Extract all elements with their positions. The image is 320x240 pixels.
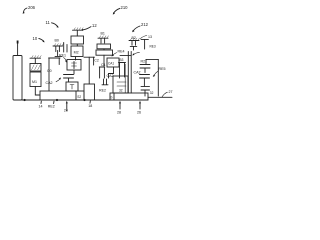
- label 14: [39, 101, 43, 108]
- svg-text:11: 11: [46, 20, 51, 25]
- motor M1: [30, 72, 41, 87]
- label RE4: [111, 50, 124, 57]
- clutch drum box: [113, 76, 128, 93]
- label 27: [162, 90, 173, 97]
- svg-text:CA2: CA2: [46, 81, 53, 85]
- label CA2: [46, 78, 62, 86]
- svg-text:RE2: RE2: [99, 89, 106, 93]
- connector: [103, 49, 105, 50]
- drum plate upper: [97, 44, 111, 49]
- stator box M2: [71, 36, 84, 44]
- wire baseline: [22, 99, 148, 101]
- svg-text:CA1: CA1: [108, 62, 114, 66]
- svg-text:CA2: CA2: [107, 74, 114, 78]
- label 11: [46, 20, 59, 28]
- svg-text:C1: C1: [101, 63, 106, 67]
- svg-text:24: 24: [64, 109, 68, 113]
- svg-text:RE3: RE3: [150, 45, 156, 49]
- ground B hatch M1 top: [30, 56, 41, 64]
- svg-text:R2: R2: [141, 60, 146, 64]
- svg-text:B1: B1: [101, 32, 105, 36]
- label 12: [81, 23, 97, 31]
- label 210: [113, 5, 128, 15]
- svg-text:18: 18: [88, 104, 92, 108]
- brake B2: [129, 36, 140, 50]
- engine block: [13, 56, 22, 101]
- clutch pack box: [67, 60, 81, 71]
- label 28 arrow: [117, 101, 121, 115]
- input stub arrow: [17, 41, 19, 56]
- svg-text:M1: M1: [32, 80, 37, 84]
- node dot right: [83, 99, 85, 101]
- wire M1 down: [35, 87, 40, 96]
- drum wall wires: [120, 52, 131, 94]
- svg-text:27: 27: [169, 90, 173, 94]
- carrier CA1 box: [107, 58, 119, 67]
- gear case box (S2): [40, 91, 84, 100]
- label 18: [88, 101, 92, 108]
- shaft T 210: [84, 57, 95, 84]
- svg-text:RE2: RE2: [48, 105, 55, 109]
- output gear box: [110, 93, 148, 100]
- motor M2: [71, 46, 83, 57]
- svg-text:RE5: RE5: [159, 67, 166, 71]
- svg-text:CA2: CA2: [134, 71, 141, 75]
- svg-text:206: 206: [28, 5, 36, 10]
- output wire right: [148, 96, 172, 98]
- ground hatch M2 top: [73, 28, 84, 36]
- node dot mid: [56, 99, 58, 101]
- svg-text:212: 212: [141, 22, 149, 27]
- clutch plates near B0: [64, 43, 67, 53]
- svg-text:10: 10: [33, 36, 38, 41]
- label 10: [33, 36, 45, 42]
- bracket right: [146, 59, 158, 96]
- label RE2: [48, 101, 55, 108]
- label RE5: [153, 67, 166, 77]
- node dot left: [24, 99, 26, 101]
- clutch C0 bracket: [49, 58, 60, 91]
- svg-text:RE4: RE4: [118, 50, 125, 54]
- label 13: [141, 35, 153, 39]
- svg-text:12: 12: [92, 23, 97, 28]
- sun box: [66, 82, 78, 91]
- svg-text:C2: C2: [94, 59, 99, 63]
- label 212: [132, 22, 148, 32]
- clutch plates right upper: [140, 65, 150, 73]
- case box 18: [84, 84, 95, 100]
- clutch T right: [141, 39, 156, 49]
- carrier link: [109, 67, 114, 78]
- label 24 arrow: [64, 101, 68, 113]
- sun stub: [99, 79, 108, 93]
- arrow hook top: [132, 52, 139, 55]
- clutch C1: [99, 55, 105, 78]
- clutch B3: [119, 58, 126, 78]
- svg-text:28: 28: [117, 111, 121, 115]
- brake B1: [98, 32, 109, 44]
- clutch C1 plates: [64, 70, 75, 82]
- svg-text:210: 210: [121, 5, 129, 10]
- svg-text:B0: B0: [55, 39, 59, 43]
- brake B0: [53, 39, 64, 57]
- svg-text:M2: M2: [74, 51, 79, 55]
- drum plate lower: [96, 50, 113, 55]
- svg-text:32: 32: [150, 91, 154, 95]
- svg-text:b: b: [111, 96, 113, 100]
- label 26 arrow: [137, 101, 141, 115]
- connector: [76, 44, 78, 46]
- svg-text:S2: S2: [77, 95, 81, 99]
- clutch plates right mid: [140, 75, 150, 87]
- label RE1: [59, 54, 67, 63]
- svg-text:26: 26: [137, 111, 141, 115]
- clutch plates right lower: [141, 86, 154, 96]
- label 206: [23, 5, 36, 14]
- svg-text:13: 13: [148, 35, 152, 39]
- svg-text:RE1: RE1: [59, 54, 66, 58]
- svg-text:B3: B3: [120, 58, 124, 62]
- stator box: [30, 64, 41, 72]
- wire M2 down: [75, 57, 77, 60]
- svg-text:32: 32: [119, 89, 123, 93]
- svg-text:14: 14: [39, 105, 43, 109]
- svg-text:C0: C0: [47, 69, 52, 73]
